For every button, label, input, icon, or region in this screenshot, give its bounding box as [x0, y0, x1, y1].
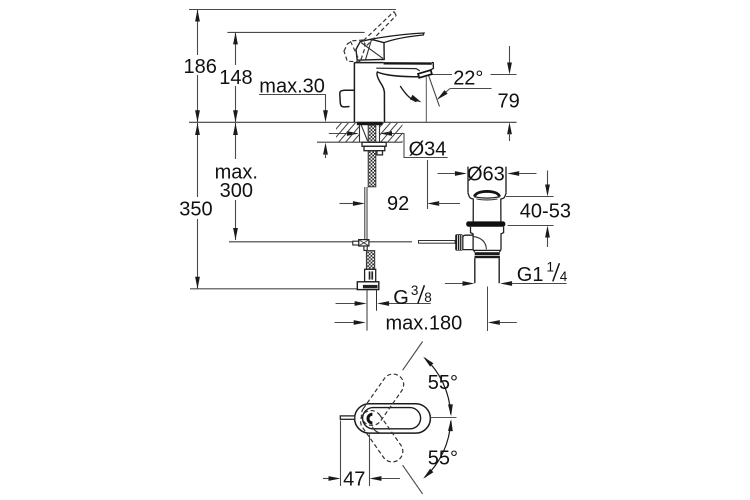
svg-text:max.180: max.180 [386, 312, 463, 334]
svg-text:55°: 55° [428, 372, 458, 394]
svg-text:300: 300 [220, 180, 253, 202]
svg-text:148: 148 [219, 67, 252, 89]
svg-text:92: 92 [387, 193, 409, 215]
svg-text:3: 3 [411, 283, 419, 298]
svg-text:G: G [393, 287, 409, 309]
svg-text:8: 8 [424, 290, 432, 305]
svg-text:Ø34: Ø34 [409, 138, 447, 160]
svg-text:47: 47 [343, 468, 365, 490]
svg-text:350: 350 [179, 199, 212, 221]
svg-text:79: 79 [498, 90, 520, 112]
svg-text:22°: 22° [453, 68, 483, 90]
svg-text:40-53: 40-53 [520, 200, 571, 222]
svg-text:186: 186 [184, 56, 217, 78]
svg-text:Ø63: Ø63 [467, 163, 505, 185]
svg-text:4: 4 [560, 269, 568, 284]
svg-text:1: 1 [547, 259, 555, 274]
svg-text:55°: 55° [428, 448, 458, 470]
svg-text:G1: G1 [517, 264, 544, 286]
